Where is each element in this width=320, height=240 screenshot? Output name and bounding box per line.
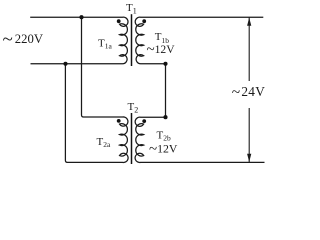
transformer T2 secondary winding T2b with bottom output wire — [135, 117, 264, 162]
polarity dot T1b — [142, 19, 146, 23]
transformer T1 primary winding T1a with 220V wires — [30, 17, 128, 64]
24V arrow line lower segment — [248, 108, 250, 162]
junction dot top 220V line — [79, 15, 83, 19]
svg-text:T2a: T2a — [97, 136, 111, 149]
polarity dot T1a — [117, 19, 121, 23]
T2 core — [131, 113, 133, 164]
svg-text:~220V: ~220V — [3, 29, 44, 50]
svg-text:T2: T2 — [128, 101, 139, 115]
T1 core — [131, 14, 133, 66]
24V arrow line upper segment — [248, 17, 250, 81]
junction dot bottom 220V line — [63, 62, 67, 66]
series link wire between T1b bottom and T2b top — [165, 64, 167, 117]
svg-text:T1a: T1a — [98, 37, 112, 50]
wire from top 220V line down to T2a, winding T2a, wire back up to bottom 220V line — [65, 17, 128, 162]
corner dot T2b top — [163, 115, 167, 119]
svg-text:T1: T1 — [126, 2, 137, 16]
arrowhead down — [247, 154, 251, 162]
arrowhead up — [247, 18, 251, 26]
svg-text:~24V: ~24V — [232, 84, 265, 101]
corner dot T1b bottom — [163, 62, 167, 66]
svg-text:~12V: ~12V — [147, 42, 176, 58]
polarity dot T2b — [142, 119, 146, 123]
transformer T1 secondary winding T1b with output wires — [135, 17, 263, 64]
polarity dot T2a — [117, 119, 121, 123]
svg-text:~12V: ~12V — [149, 142, 178, 158]
